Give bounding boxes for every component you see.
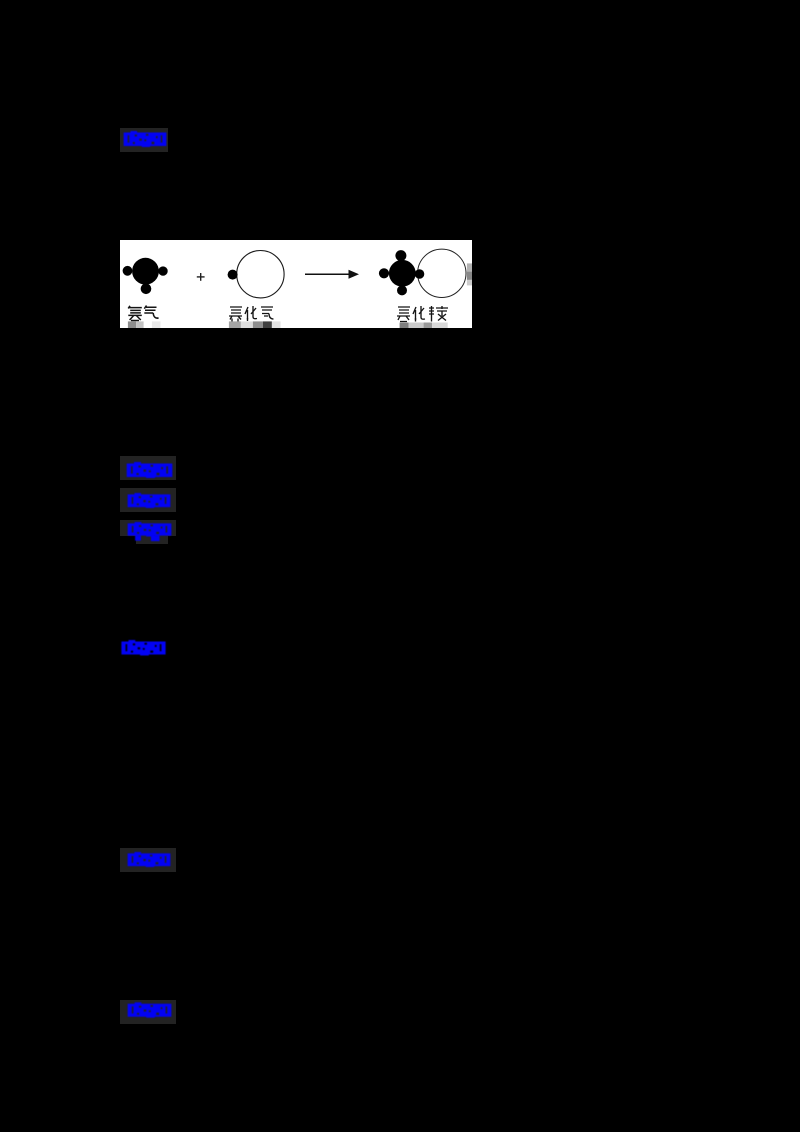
hydrogen chloride label (氯化氢) xyxy=(229,306,274,322)
hydrogen chloride: Cl atom xyxy=(237,251,284,298)
grey artifact blocks under hydrogen chloride label xyxy=(229,321,241,328)
ammonium chloride: H atom top xyxy=(395,250,406,261)
kaodian2 label text xyxy=(127,1002,172,1018)
reaction diagram image xyxy=(120,240,472,334)
ammonia molecule: H atom left xyxy=(123,266,133,276)
ammonium chloride: H atom right xyxy=(415,269,425,279)
ammonia molecule: H atom bottom xyxy=(141,284,152,295)
ammonium chloride: N atom xyxy=(389,260,416,287)
answer label text 1 xyxy=(123,131,167,147)
grey artifact blocks under ammonia label xyxy=(128,321,136,328)
kaodian2 label box xyxy=(120,1000,176,1024)
reaction arrow xyxy=(305,273,350,275)
white background of diagram xyxy=(120,240,472,328)
ammonia label (氨气) xyxy=(128,306,158,321)
fenxi label text xyxy=(127,522,172,542)
plus sign xyxy=(197,273,205,281)
dianping label text xyxy=(126,852,172,867)
answer label box 1 xyxy=(120,128,168,152)
ammonium chloride: H atom left xyxy=(379,268,389,278)
ammonium chloride: H atom bottom xyxy=(397,285,407,295)
ammonia molecule: N atom xyxy=(132,258,159,285)
ammonium chloride label (氯化铵) xyxy=(397,306,448,322)
kaodian label box xyxy=(120,456,176,480)
zhuanti label text xyxy=(126,493,172,508)
fenxi label box xyxy=(120,520,176,536)
hydrogen chloride: H atom xyxy=(228,270,238,280)
jieda label text xyxy=(120,640,167,656)
ammonium chloride: Cl atom xyxy=(418,249,466,297)
grey artifact blocks under ammonium chloride label xyxy=(400,323,409,329)
grey artifact bar at right edge xyxy=(467,263,472,271)
kaodian label text xyxy=(126,462,173,478)
zhuanti label box xyxy=(120,488,176,512)
dianping label box xyxy=(120,848,176,872)
ammonia molecule: H atom right xyxy=(158,266,167,275)
fenxi label lower box xyxy=(136,536,168,544)
